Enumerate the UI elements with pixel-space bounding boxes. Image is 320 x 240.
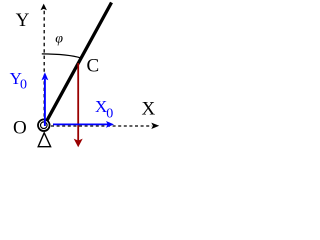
Y axis dashed line: [43, 10, 45, 124]
support triangle: [38, 133, 50, 147]
X0 blue arrow: [53, 121, 114, 128]
red vertical arrow from C: [74, 63, 83, 147]
svg-text:C: C: [87, 56, 100, 77]
Y0 blue arrow: [42, 72, 49, 125]
blue line tip into hinge: [44, 119, 46, 126]
svg-text:0: 0: [20, 78, 27, 93]
pivot hinge outer circle: [38, 119, 50, 131]
svg-text:O: O: [13, 118, 27, 139]
rod (pendulum link): [44, 3, 111, 126]
X axis arrowhead: [151, 123, 159, 129]
svg-text:φ: φ: [55, 31, 63, 46]
X axis dashed line: [51, 125, 152, 127]
pivot hinge inner circle: [41, 122, 48, 129]
svg-text:Y: Y: [16, 10, 30, 31]
svg-text:X: X: [142, 99, 156, 120]
angle arc phi: [42, 54, 81, 58]
svg-text:0: 0: [106, 107, 113, 122]
Y axis arrowhead: [41, 4, 47, 11]
